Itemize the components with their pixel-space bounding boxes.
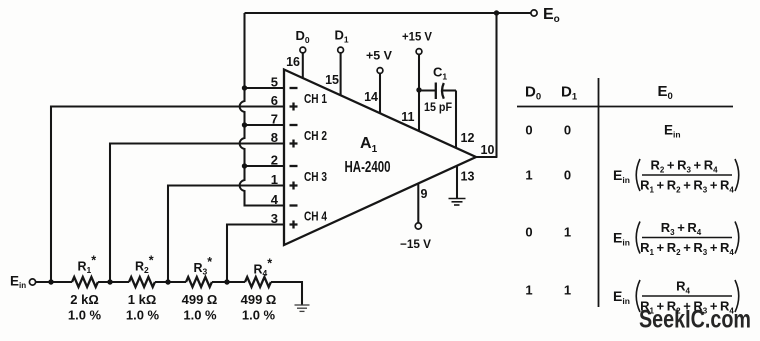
CH3 minus mark [290, 165, 298, 167]
svg-text:1: 1 [525, 168, 532, 183]
ground (pin 13) [449, 199, 466, 206]
node: R1-R2 / CH2+ junction [107, 279, 112, 284]
wire: pin 2 stub [245, 165, 285, 167]
resistor R1 [72, 277, 98, 287]
svg-text:SeekIC.com: SeekIC.com [639, 306, 751, 334]
svg-text:3: 3 [271, 211, 278, 226]
wire: pin 3 (CH4+) to R3-R4 node [227, 225, 284, 283]
svg-text:−15 V: −15 V [400, 237, 431, 251]
node: +15V / C1 junction [416, 87, 421, 92]
wire: pin 6 (CH1+) to Ein node [51, 107, 284, 283]
resistor R2 [129, 277, 155, 287]
svg-text:499 Ω: 499 Ω [241, 292, 277, 307]
svg-text:1.0 %: 1.0 % [68, 308, 102, 323]
table divider [598, 78, 600, 307]
wire: pin 14 from +5V [379, 73, 381, 113]
CH2 minus mark [290, 124, 298, 126]
svg-text:0: 0 [525, 225, 532, 240]
svg-text:5: 5 [271, 75, 278, 90]
table row 2 [525, 158, 738, 195]
svg-text:10: 10 [481, 143, 495, 157]
wire: R4 to ground [271, 282, 302, 305]
CH1 minus mark [290, 87, 298, 89]
wire: pin 9 to -15V [417, 184, 419, 223]
svg-text:2 kΩ: 2 kΩ [70, 292, 99, 307]
svg-text:1: 1 [271, 172, 278, 187]
terminal -15V [415, 223, 421, 229]
wire: pin 5 stub [245, 87, 285, 89]
wire: R2 to R3 [155, 281, 186, 283]
svg-text:0: 0 [564, 168, 571, 183]
wire: top feedback wire to output [245, 12, 532, 14]
svg-text:CH 2: CH 2 [304, 129, 327, 143]
node: R2-R3 / CH3+ junction [165, 279, 170, 284]
wire: pin 15 from D1 [340, 53, 342, 96]
wire: R3 to R4 [212, 281, 245, 283]
svg-text:15: 15 [325, 73, 339, 87]
node: bus at pin 7 [242, 122, 247, 127]
terminal Ein [29, 279, 35, 285]
svg-text:6: 6 [271, 93, 278, 108]
svg-text:9: 9 [421, 187, 428, 201]
CH4 plus mark [290, 221, 298, 229]
svg-text:+15 V: +15 V [402, 30, 432, 44]
wire: pin 8 (CH2+) to R1-R2 node [110, 144, 284, 283]
wire: pin 13 to ground [456, 166, 458, 199]
svg-text:0: 0 [525, 123, 532, 138]
node: bus at pin 2 [242, 163, 247, 168]
svg-text:1.0 %: 1.0 % [183, 308, 217, 323]
svg-text:R1 + R2 + R3 + R4: R1 + R2 + R3 + R4 [640, 178, 734, 195]
svg-text:0: 0 [564, 123, 571, 138]
node: Ein / CH1+ junction [48, 279, 53, 284]
terminal +15V [416, 49, 422, 55]
wire: pin 1 (CH3+) to R2-R3 node [168, 186, 284, 283]
svg-text:1: 1 [525, 283, 532, 298]
wire: pin 12 from C1 [455, 91, 457, 149]
resistor R4 [245, 277, 271, 287]
CH4 minus mark [290, 204, 298, 206]
terminal +5V [377, 68, 383, 74]
svg-text:1: 1 [564, 283, 571, 298]
table header rule [517, 106, 733, 108]
op-amp U1 A1 HA-2400 triangle [284, 70, 476, 246]
wire: pin 7 stub [245, 124, 285, 126]
svg-text:11: 11 [401, 110, 414, 124]
table row 3 [525, 220, 738, 257]
svg-text:1.0 %: 1.0 % [126, 308, 160, 323]
table: truth table [517, 78, 733, 307]
svg-text:R1 + R2 + R3 + R4: R1 + R2 + R3 + R4 [640, 240, 734, 257]
node: feedback/output junction [494, 10, 499, 15]
svg-text:CH 4: CH 4 [304, 210, 327, 224]
table row 4 [525, 279, 738, 316]
svg-text:1: 1 [564, 225, 571, 240]
svg-text:14: 14 [364, 90, 378, 104]
svg-text:2: 2 [271, 153, 278, 168]
node: R3-R4 / CH4+ junction [224, 279, 229, 284]
wire: pin 10 output stub [476, 156, 497, 158]
table row 1 [525, 123, 680, 140]
wire: output vertical from pin 10 [495, 13, 497, 157]
svg-text:13: 13 [461, 170, 475, 184]
wire: pin 16 from D0 [302, 53, 304, 78]
ground (resistor chain) [295, 305, 310, 311]
CH1 plus mark [290, 103, 298, 111]
wire: pin 11 from +15V [418, 54, 420, 131]
svg-text:4: 4 [271, 192, 279, 207]
svg-text:16: 16 [286, 55, 300, 69]
svg-text:7: 7 [271, 112, 278, 127]
svg-text:CH 1: CH 1 [304, 92, 327, 106]
svg-text:HA-2400: HA-2400 [345, 159, 391, 176]
capacitor C1 15 pF [419, 65, 456, 115]
svg-text:1 kΩ: 1 kΩ [128, 292, 157, 307]
svg-text:499 Ω: 499 Ω [182, 292, 218, 307]
CH2 plus mark [290, 140, 298, 148]
svg-text:+5 V: +5 V [366, 51, 392, 63]
terminal D0 [300, 47, 306, 53]
svg-text:15 pF: 15 pF [424, 100, 452, 114]
terminal Eo [531, 10, 537, 16]
wire: Ein to R1 [36, 281, 72, 283]
svg-text:12: 12 [461, 131, 475, 145]
wire: R1 to R2 [98, 281, 129, 283]
svg-text:R3 + R4: R3 + R4 [661, 220, 702, 237]
terminal D1 [338, 47, 344, 53]
wire: inverting feedback bus with hops [240, 13, 284, 206]
resistor R3 [186, 277, 212, 287]
svg-text:1.0 %: 1.0 % [242, 308, 276, 323]
node: bus at pin 5 [242, 85, 247, 90]
CH3 plus mark [290, 182, 298, 190]
svg-text:8: 8 [271, 130, 278, 145]
svg-text:CH 3: CH 3 [304, 170, 327, 184]
